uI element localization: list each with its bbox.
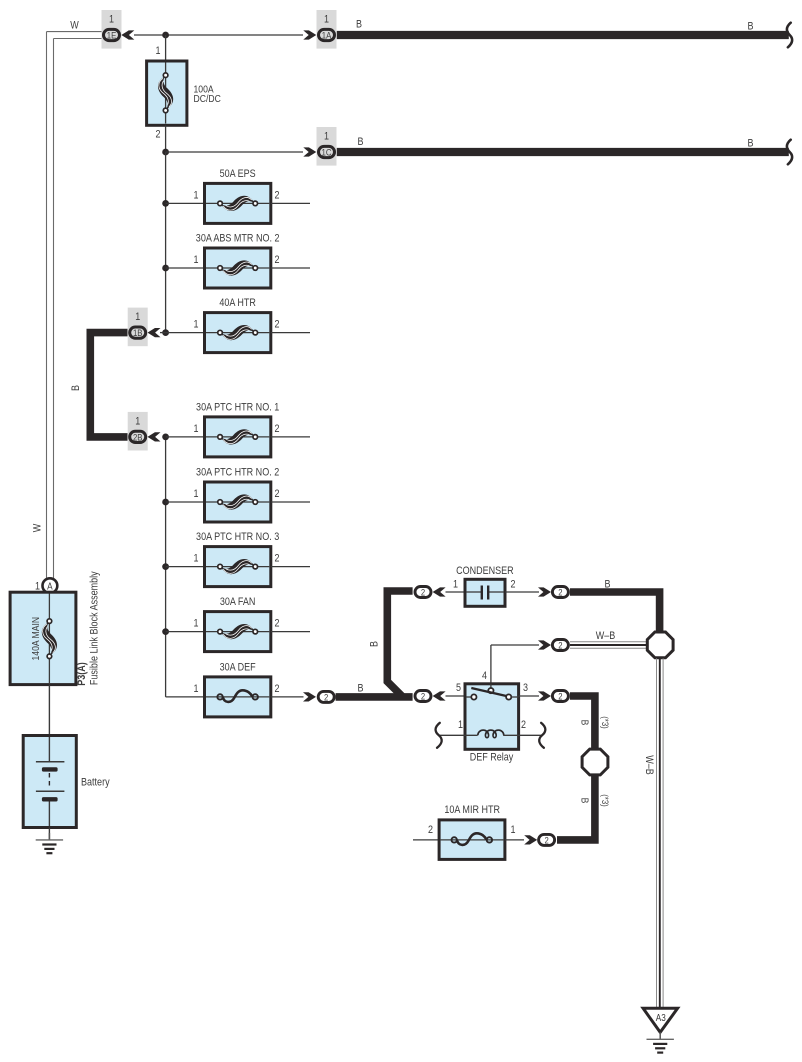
label CONDENSER bbox=[456, 565, 514, 577]
label Fusible Link Block Assembly bbox=[89, 571, 101, 685]
ground symbol battery bbox=[36, 833, 63, 853]
pin 1 label block bbox=[35, 580, 40, 592]
vertical bus wire upper bbox=[165, 152, 167, 333]
svg-text:W: W bbox=[32, 523, 44, 532]
svg-text:30A PTC HTR NO. 1: 30A PTC HTR NO. 1 bbox=[196, 401, 279, 413]
terminal 2 relay left bbox=[415, 691, 431, 703]
connector 2B bbox=[128, 412, 148, 451]
terminal 2 condenser left bbox=[415, 587, 431, 599]
svg-text:(*3): (*3) bbox=[599, 716, 610, 729]
label B octagon-MIR bbox=[579, 798, 591, 804]
svg-text:1A: 1A bbox=[322, 31, 332, 42]
junction node 30A PTC HTR NO. 1 bbox=[162, 434, 169, 441]
terminal 2 MIR bbox=[539, 834, 555, 846]
svg-text:2: 2 bbox=[275, 553, 280, 565]
svg-text:B: B bbox=[358, 683, 364, 695]
label W-B horizontal bbox=[596, 630, 616, 642]
relay switch blade bbox=[471, 688, 508, 697]
label B relay-octagon bbox=[579, 720, 591, 726]
fuse 30A DEF bbox=[194, 661, 280, 717]
wire condenser pin 2 to arrow bbox=[505, 591, 539, 593]
label B condenser right bbox=[605, 579, 611, 591]
label W vertical bbox=[32, 523, 44, 532]
svg-text:2: 2 bbox=[558, 692, 562, 703]
wire stub right 30A DEF bbox=[271, 696, 304, 698]
bracket squiggle right of relay bbox=[539, 723, 545, 748]
arrow into condenser-left terminal bbox=[433, 587, 446, 596]
junction node 30A PTC HTR NO. 3 bbox=[162, 563, 169, 570]
svg-text:2: 2 bbox=[558, 641, 562, 652]
svg-text:1: 1 bbox=[194, 553, 199, 565]
svg-text:2: 2 bbox=[421, 692, 425, 703]
svg-text:4: 4 bbox=[482, 670, 487, 682]
arrow into relay-right terminal bbox=[538, 691, 551, 700]
svg-text:1: 1 bbox=[453, 579, 458, 591]
terminal 2 W-B bbox=[552, 640, 568, 652]
wire stub right 30A PTC HTR NO. 1 bbox=[271, 436, 310, 438]
fuse 30A PTC HTR NO. 3 bbox=[194, 531, 280, 587]
svg-text:3: 3 bbox=[523, 682, 528, 694]
fuse 30A PTC HTR NO. 2 bbox=[194, 467, 280, 523]
svg-text:1: 1 bbox=[135, 311, 140, 323]
junction node 50A EPS bbox=[162, 200, 169, 207]
svg-text:B: B bbox=[368, 641, 380, 647]
svg-text:140A MAIN: 140A MAIN bbox=[30, 617, 42, 661]
svg-text:1: 1 bbox=[194, 618, 199, 630]
pin 1 label DC/DC bbox=[156, 45, 161, 57]
relay coil pins 1-2 bbox=[438, 730, 542, 738]
svg-text:1: 1 bbox=[135, 415, 140, 427]
svg-text:2: 2 bbox=[511, 579, 516, 591]
thick wire B condenser to octagon bbox=[570, 592, 660, 632]
svg-text:W: W bbox=[70, 20, 79, 32]
wire stub right 30A FAN bbox=[271, 631, 310, 633]
svg-text:Battery: Battery bbox=[81, 776, 110, 788]
connector 1C bbox=[317, 127, 337, 166]
svg-text:1: 1 bbox=[324, 14, 329, 26]
junction node top bbox=[162, 32, 169, 39]
wire battery to ground bbox=[48, 828, 50, 840]
svg-text:1: 1 bbox=[156, 45, 161, 57]
wire junction to 1C bbox=[166, 151, 303, 153]
svg-text:10A MIR HTR: 10A MIR HTR bbox=[444, 804, 500, 816]
wire stub left 40A HTR bbox=[166, 332, 205, 334]
svg-text:(*3): (*3) bbox=[599, 794, 610, 807]
svg-text:1: 1 bbox=[194, 683, 199, 695]
svg-text:B: B bbox=[579, 798, 591, 804]
svg-text:1: 1 bbox=[194, 488, 199, 500]
wire 1E to junction to 1A bbox=[134, 34, 303, 36]
wire arrow to dot 40A HTR bbox=[160, 332, 166, 334]
svg-text:30A ABS MTR NO. 2: 30A ABS MTR NO. 2 bbox=[196, 233, 280, 245]
wire stub left 30A DEF bbox=[166, 696, 205, 698]
svg-text:A: A bbox=[47, 581, 53, 592]
battery box bbox=[23, 736, 76, 828]
arrow into W-B terminal bbox=[538, 640, 551, 649]
wire stub right 30A ABS MTR NO. 2 bbox=[271, 267, 310, 269]
label B row 1C right bbox=[748, 138, 754, 150]
svg-text:2: 2 bbox=[421, 588, 425, 599]
wire W double from 1E to fusible link block pin A bbox=[47, 32, 104, 580]
svg-text:B: B bbox=[579, 720, 591, 726]
wire W-B horizontal bbox=[570, 642, 647, 649]
pin 4 label relay bbox=[482, 670, 487, 682]
svg-text:CONDENSER: CONDENSER bbox=[456, 565, 514, 577]
connector 1B bbox=[128, 308, 148, 347]
vertical bus wire lower bbox=[165, 437, 167, 697]
wire stub right 50A EPS bbox=[271, 202, 310, 204]
pin 2 label DC/DC bbox=[156, 129, 161, 141]
svg-text:W–B: W–B bbox=[643, 755, 655, 775]
arrow into 2B bbox=[148, 432, 161, 441]
arrow into 1C bbox=[303, 147, 316, 156]
relay pin 5 contact bbox=[466, 694, 477, 699]
connector 1E bbox=[102, 10, 122, 49]
svg-text:1: 1 bbox=[458, 719, 463, 731]
terminal 2 relay right bbox=[552, 691, 568, 703]
wire stub right 30A PTC HTR NO. 3 bbox=[271, 566, 310, 568]
octagon junction lower bbox=[582, 749, 608, 775]
label W-B vertical bbox=[643, 755, 655, 775]
svg-text:B: B bbox=[605, 579, 611, 591]
svg-text:40A HTR: 40A HTR bbox=[219, 297, 256, 309]
pin 2 label condenser bbox=[511, 579, 516, 591]
svg-text:W–B: W–B bbox=[596, 630, 616, 642]
wire stub left 10A MIR HTR bbox=[413, 839, 439, 841]
wire arrow to relay pin 5 bbox=[446, 695, 467, 697]
wire stub left 50A EPS bbox=[166, 202, 205, 204]
svg-text:2B: 2B bbox=[133, 432, 143, 443]
thick wire B U-shape 1B to 2B bbox=[90, 333, 127, 437]
svg-text:1: 1 bbox=[194, 423, 199, 435]
thick wire B octagon 2 to MIR terminal bbox=[557, 775, 595, 840]
svg-text:2: 2 bbox=[428, 824, 433, 836]
arrow into 1E bbox=[121, 30, 134, 39]
label (*3) octagon-MIR bbox=[599, 794, 610, 807]
label Battery bbox=[81, 776, 110, 788]
fuse 30A FAN bbox=[194, 596, 280, 652]
svg-text:B: B bbox=[358, 136, 364, 148]
thick wire B branch up to condenser row bbox=[387, 591, 412, 697]
svg-text:2: 2 bbox=[324, 692, 328, 703]
svg-text:30A FAN: 30A FAN bbox=[220, 596, 256, 608]
arrow into MIR terminal bbox=[524, 835, 537, 844]
label DEF Relay bbox=[470, 752, 514, 764]
svg-text:1: 1 bbox=[194, 189, 199, 201]
fuse 30A ABS MTR NO. 2 bbox=[194, 233, 280, 289]
wire relay pin 3 to arrow bbox=[519, 695, 539, 697]
arrow into relay-left terminal bbox=[433, 691, 446, 700]
terminal 2 DEF fuse output bbox=[318, 691, 334, 703]
wire W-B vertical to ground bbox=[657, 658, 664, 1008]
thick wire B DEF output run bbox=[336, 693, 413, 701]
relay pin 4 contact bbox=[488, 684, 493, 693]
relay DEF Relay box bbox=[465, 684, 519, 750]
thick wire B row 1C bbox=[337, 148, 789, 156]
svg-text:Fusible Link Block Assembly: Fusible Link Block Assembly bbox=[89, 571, 101, 685]
svg-text:2: 2 bbox=[275, 618, 280, 630]
label B on U wire bbox=[70, 385, 82, 391]
svg-text:1: 1 bbox=[109, 14, 114, 26]
wire stub right 30A PTC HTR NO. 2 bbox=[271, 501, 310, 503]
svg-text:DEF Relay: DEF Relay bbox=[470, 752, 514, 764]
svg-text:2: 2 bbox=[275, 319, 280, 331]
wire stub left 30A PTC HTR NO. 3 bbox=[166, 566, 205, 568]
thick wire B relay to octagon 2 bbox=[570, 696, 595, 750]
svg-text:30A DEF: 30A DEF bbox=[220, 661, 256, 673]
svg-text:1E: 1E bbox=[107, 31, 117, 42]
svg-text:B: B bbox=[748, 21, 754, 33]
wire stub left 30A ABS MTR NO. 2 bbox=[166, 267, 205, 269]
junction node 30A ABS MTR NO. 2 bbox=[162, 265, 169, 272]
svg-text:B: B bbox=[748, 138, 754, 150]
wire relay pin4 riser bbox=[491, 645, 539, 684]
label W horizontal bbox=[70, 20, 79, 32]
svg-text:30A PTC HTR NO. 2: 30A PTC HTR NO. 2 bbox=[196, 467, 279, 479]
fuse 30A PTC HTR NO. 1 bbox=[194, 401, 280, 457]
wire stub left 30A FAN bbox=[166, 631, 205, 633]
svg-text:DC/DC: DC/DC bbox=[194, 93, 222, 105]
label B horizontal DEF run bbox=[358, 683, 364, 695]
svg-text:2: 2 bbox=[275, 254, 280, 266]
svg-text:30A PTC HTR NO. 3: 30A PTC HTR NO. 3 bbox=[196, 531, 279, 543]
pin A circle fusible link block bbox=[43, 578, 58, 593]
svg-text:1: 1 bbox=[511, 824, 516, 836]
svg-text:2: 2 bbox=[156, 129, 161, 141]
wire DC/DC pin 2 down to 1C row bbox=[165, 125, 167, 152]
svg-text:2: 2 bbox=[275, 683, 280, 695]
junction node 30A PTC HTR NO. 2 bbox=[162, 499, 169, 506]
label B row1 right bbox=[748, 21, 754, 33]
connector 1A bbox=[317, 10, 337, 49]
relay pin 3 contact bbox=[506, 694, 518, 699]
svg-text:1: 1 bbox=[194, 319, 199, 331]
svg-text:2: 2 bbox=[275, 189, 280, 201]
fuse 40A HTR bbox=[194, 297, 280, 353]
fuse 50A EPS bbox=[194, 168, 280, 224]
ground symbol A3 bbox=[647, 1032, 674, 1052]
arrow into DEF output terminal bbox=[303, 692, 316, 701]
svg-text:2: 2 bbox=[544, 835, 548, 846]
pin 3 label relay bbox=[523, 682, 528, 694]
fusible link 100A DC/DC box bbox=[147, 61, 187, 125]
label (*3) relay-octagon bbox=[599, 716, 610, 729]
wire MIR pin 1 to arrow bbox=[505, 839, 524, 841]
svg-text:2: 2 bbox=[275, 423, 280, 435]
svg-text:A3: A3 bbox=[656, 1013, 666, 1024]
svg-text:1: 1 bbox=[324, 131, 329, 143]
terminal 2 condenser right bbox=[552, 587, 568, 599]
arrow into condenser-right terminal bbox=[538, 587, 551, 596]
label B vertical branch bbox=[368, 641, 380, 647]
bracket squiggle left of relay bbox=[436, 723, 442, 748]
svg-text:2: 2 bbox=[275, 488, 280, 500]
label B row1 left bbox=[356, 19, 362, 31]
pin 5 label relay bbox=[456, 682, 461, 694]
svg-text:1C: 1C bbox=[322, 148, 332, 159]
thick wire B row 1A bbox=[337, 31, 789, 39]
wire block to battery bbox=[48, 685, 50, 736]
wire stub left 30A PTC HTR NO. 2 bbox=[166, 501, 205, 503]
svg-text:B: B bbox=[356, 19, 362, 31]
pin 2 label relay bbox=[521, 719, 526, 731]
wire junction to DC/DC pin 1 bbox=[165, 35, 167, 61]
junction node 40A HTR bbox=[162, 329, 169, 336]
arrow into 1A bbox=[303, 30, 316, 39]
ground point triangle A3 bbox=[643, 1008, 678, 1032]
junction node 1C row bbox=[162, 149, 169, 156]
wire arrow to condenser pin 1 bbox=[446, 591, 466, 593]
svg-text:2: 2 bbox=[521, 719, 526, 731]
svg-text:1: 1 bbox=[35, 580, 40, 592]
wire stub left 30A PTC HTR NO. 1 bbox=[166, 436, 205, 438]
arrow into 1B bbox=[148, 328, 161, 337]
svg-text:50A EPS: 50A EPS bbox=[220, 168, 256, 180]
svg-text:5: 5 bbox=[456, 682, 461, 694]
label B row 1C left bbox=[358, 136, 364, 148]
svg-text:1: 1 bbox=[194, 254, 199, 266]
octagon junction upper bbox=[647, 632, 673, 658]
svg-text:P3(A): P3(A) bbox=[76, 662, 88, 686]
svg-text:1B: 1B bbox=[133, 328, 143, 339]
capacitor CONDENSER box bbox=[465, 579, 505, 606]
wire stub right 40A HTR bbox=[271, 332, 310, 334]
label P3(A) bbox=[76, 662, 88, 686]
fuse 10A MIR HTR bbox=[428, 804, 516, 859]
label 100A DC/DC bbox=[194, 84, 222, 105]
pin 1 label relay bbox=[458, 719, 463, 731]
fusible link 140A MAIN box bbox=[10, 592, 76, 684]
svg-text:B: B bbox=[70, 385, 82, 391]
wire-end squiggle row 1C bbox=[787, 140, 792, 165]
pin 1 label condenser bbox=[453, 579, 458, 591]
wire-end squiggle row1 bbox=[787, 23, 792, 48]
svg-text:2: 2 bbox=[558, 588, 562, 599]
junction node 30A FAN bbox=[162, 628, 169, 635]
